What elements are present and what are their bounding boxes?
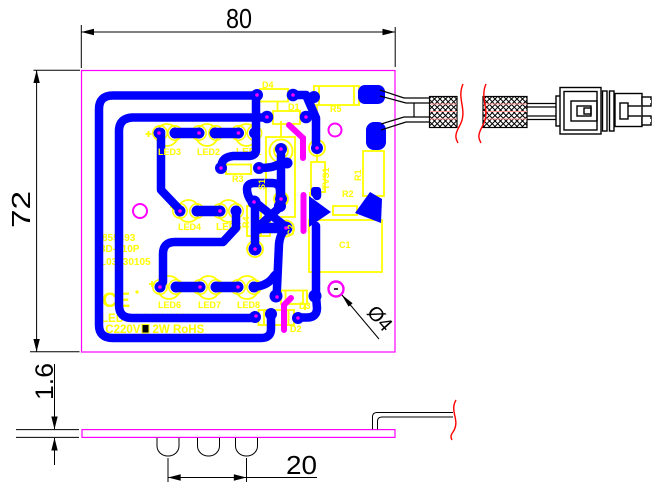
svg-text:D3: D3: [299, 301, 311, 311]
svg-text:LED6: LED6: [158, 300, 181, 310]
svg-text:1.6: 1.6: [31, 363, 59, 400]
svg-text:R2: R2: [342, 189, 354, 199]
svg-text:TVS1: TVS1: [321, 167, 331, 190]
svg-text:D2: D2: [290, 324, 302, 334]
svg-text:C1: C1: [339, 240, 351, 250]
svg-text:R3: R3: [232, 174, 244, 184]
svg-text:20: 20: [286, 450, 317, 480]
svg-text:LED2: LED2: [197, 147, 220, 157]
svg-text:R1: R1: [353, 169, 363, 181]
svg-text:L03130105: L03130105: [100, 257, 151, 268]
svg-text:R4: R4: [241, 216, 251, 228]
svg-text:80: 80: [226, 3, 252, 34]
svg-text:72: 72: [6, 191, 36, 228]
svg-text:C2: C2: [286, 224, 296, 236]
svg-text:R5: R5: [330, 104, 342, 114]
svg-text:LED3: LED3: [158, 147, 181, 157]
svg-text:D1: D1: [288, 102, 300, 112]
svg-text:S1: S1: [257, 179, 267, 190]
svg-text:LED4: LED4: [178, 222, 201, 232]
svg-text:LED7: LED7: [198, 300, 221, 310]
svg-text:D4: D4: [262, 80, 274, 90]
svg-text:LED8: LED8: [237, 300, 260, 310]
